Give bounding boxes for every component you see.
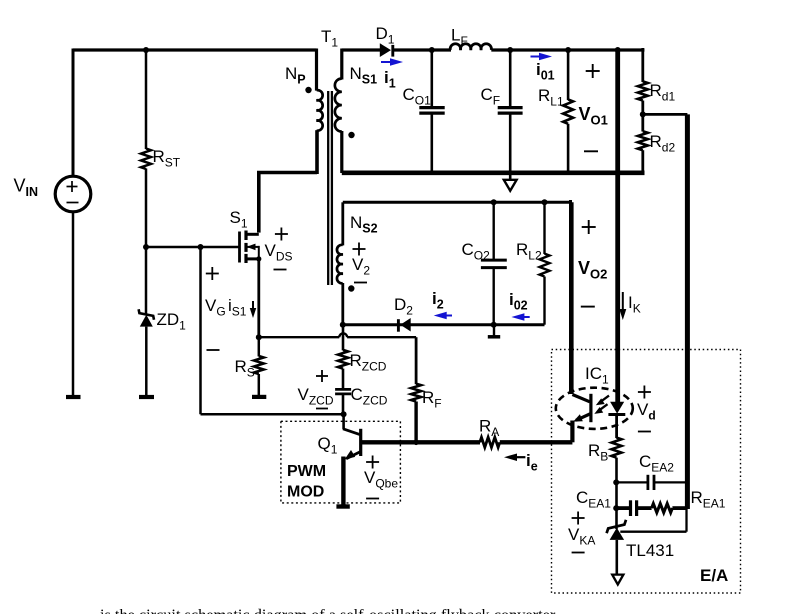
wire Q1 emitter to ground <box>341 457 345 506</box>
arrow i2 current blue <box>445 315 452 317</box>
transistor S1 source lead <box>245 257 259 260</box>
node divider tap <box>640 111 646 117</box>
resistor RL2 <box>543 202 545 254</box>
node RF collector junction <box>413 440 419 446</box>
wire zener branch <box>145 247 148 314</box>
node gate drive junction <box>143 244 149 250</box>
ground bar ZD1 <box>139 395 154 399</box>
wire S1 source vertical <box>257 259 260 337</box>
node S1 source junction <box>256 334 262 340</box>
capacitor CO2 <box>493 202 495 260</box>
inductor LF <box>450 44 491 50</box>
wire drain vertical <box>257 173 261 233</box>
arrow i01 current blue <box>531 56 542 58</box>
wire RZCD to CZCD <box>342 369 345 390</box>
wire RZCD branch upper <box>342 325 345 351</box>
arrow ie current <box>515 456 525 458</box>
transistor Q1 base wire <box>342 414 345 429</box>
ground stub below CO2 <box>493 325 495 337</box>
label plus VDS <box>275 233 288 235</box>
wire NS2 upper lead <box>341 202 344 245</box>
wire NS2 top <box>343 201 572 204</box>
resistor RA <box>480 437 500 447</box>
wire NS1 to output bottom rail <box>340 131 343 173</box>
label minus V2 <box>354 282 367 284</box>
wire secondary2 bottom <box>343 323 545 326</box>
wire divider tap to right rail <box>643 113 688 116</box>
wire NP top lead <box>315 49 318 91</box>
svg-text:E/A: E/A <box>700 566 728 585</box>
label plus VO1 <box>586 70 600 72</box>
wire NS1 top lead <box>340 49 343 80</box>
wire RB to node <box>615 458 618 529</box>
wire opto emitter to RA wire <box>570 421 574 443</box>
label minus VG <box>207 349 220 351</box>
wire VG sense vertical <box>199 247 202 414</box>
wire LF to corner <box>491 48 644 51</box>
wire Q1 collector <box>361 440 480 444</box>
core line left <box>327 91 329 285</box>
shunt regulator TL431 <box>607 520 626 533</box>
label minus Vd <box>638 431 651 433</box>
ground bar VIN return <box>66 395 81 399</box>
wire D1 to LF <box>393 48 451 51</box>
wire CZCD bottom <box>342 394 345 414</box>
zener diode ZD1 <box>139 309 154 320</box>
node CO2 top <box>491 199 497 205</box>
winding NS1 <box>335 79 342 132</box>
diode D1 <box>380 43 391 57</box>
resistor RL1 <box>567 50 570 100</box>
wire LED to RB <box>615 415 618 439</box>
wire Rd1 to tap <box>641 101 644 116</box>
label plus VKA <box>572 517 585 519</box>
resistor RS <box>258 337 261 356</box>
node VG sense junction <box>198 244 204 250</box>
wire hop to RF <box>347 336 416 338</box>
ground bar RS <box>252 395 266 399</box>
diode D2 <box>400 318 410 332</box>
wire top rail primary side <box>73 48 317 51</box>
node D2 wire left junction <box>340 322 346 328</box>
resistor RZCD <box>338 350 348 369</box>
label minus VZCD <box>316 408 328 410</box>
ellipse IC1 outline <box>556 388 633 429</box>
wire VIN bottom lead <box>72 212 75 395</box>
wire NS1 top rail to D1 <box>342 48 381 51</box>
wire gate <box>146 246 240 249</box>
wire ref horizontal <box>620 531 686 533</box>
wire REA1 to rail <box>672 506 687 510</box>
wire Rd branch top <box>641 48 644 82</box>
wire output1 bottom rail <box>342 171 645 176</box>
arrow i02 current blue <box>522 316 529 318</box>
winding NS2 <box>337 245 343 283</box>
wire primary bottom horizontal <box>257 171 317 175</box>
wire Rd2 bottom <box>641 150 644 173</box>
wire Rst branch upper <box>145 50 148 149</box>
transistor S1 body arrow <box>247 246 260 248</box>
node RL1 top <box>565 47 571 53</box>
transistor S1 drain lead <box>245 233 259 236</box>
node junction Rst top <box>143 47 149 53</box>
wire IK rail <box>615 50 620 402</box>
wire opto collector lead <box>572 395 589 402</box>
ground bar Q1 <box>336 504 349 508</box>
label plus VO2 <box>582 226 596 228</box>
LED IC1 <box>610 402 624 414</box>
core line right <box>331 91 333 285</box>
resistor Rd1 <box>638 81 648 100</box>
capacitor CEA2 <box>616 481 648 483</box>
label minus VDS <box>274 269 287 271</box>
wire primary coil lower lead <box>315 130 319 174</box>
wire RA to opto emitter <box>500 440 573 444</box>
voltage source VIN <box>55 176 91 212</box>
arrow iS1 current <box>252 301 254 310</box>
label plus VQbe <box>366 461 379 463</box>
arrow IK current <box>622 292 624 311</box>
phototransistor emitter <box>576 414 591 421</box>
node CEA1 <box>613 505 619 511</box>
node RL2 top <box>542 199 548 205</box>
transistor Q1 base bar <box>359 429 362 456</box>
arrow i1 current blue <box>381 61 392 63</box>
polarity dot NS1 <box>348 132 354 138</box>
wire VIN top lead <box>72 49 75 177</box>
transistor S1 gate bar <box>238 232 241 263</box>
node CO2 bottom <box>491 322 497 328</box>
wire Rst to gate node <box>145 169 148 249</box>
resistor RB <box>612 438 622 458</box>
wire hop over RZCD <box>339 333 347 337</box>
wire source to hop <box>259 336 340 338</box>
svg-text:MOD: MOD <box>287 484 324 501</box>
label minus VKA <box>572 552 585 554</box>
resistor RST <box>141 149 151 170</box>
light arrow lower <box>598 404 608 411</box>
wire NS2 lower lead <box>341 283 344 326</box>
svg-text:TL431: TL431 <box>626 541 674 560</box>
transistor S1 channel segments <box>244 231 247 241</box>
label plus Vd <box>638 391 651 393</box>
box PWM MOD <box>281 421 401 503</box>
ground symbol CF <box>509 173 512 180</box>
node CEA2 <box>613 479 619 485</box>
svg-text:PWM: PWM <box>287 463 326 480</box>
ground symbol TL431 <box>612 575 623 585</box>
node Q1 base junction <box>341 411 347 417</box>
capacitor CF <box>509 50 512 108</box>
wire ref down <box>685 508 687 532</box>
label plus VG <box>206 273 219 275</box>
polarity dot NS2 <box>348 285 354 291</box>
label minus VQbe <box>366 498 379 500</box>
label minus VO1 <box>584 150 598 152</box>
capacitor CZCD <box>335 388 351 391</box>
node IK rail top <box>615 47 621 53</box>
node CO1 top <box>429 47 435 53</box>
polarity dot NP <box>305 87 311 93</box>
resistor Rd2 <box>641 114 644 131</box>
svg-text:is the circuit schematic diagr: is the circuit schematic diagram of a se… <box>100 605 556 614</box>
node CF top <box>507 47 513 53</box>
wire VG sense horizontal <box>201 413 344 416</box>
transistor Q1 emitter <box>346 452 361 459</box>
wire right feedback rail <box>685 114 690 509</box>
label minus VO2 <box>581 306 595 308</box>
resistor RF <box>415 337 418 384</box>
wire VO2 rail <box>569 202 574 394</box>
resistor REA1 <box>652 504 673 513</box>
capacitor CEA1 <box>616 506 630 510</box>
label plus V2 <box>353 248 366 250</box>
phototransistor base bar <box>589 394 592 422</box>
label plus VZCD <box>316 375 328 377</box>
capacitor CO1 <box>430 50 433 108</box>
winding NP <box>317 90 323 131</box>
node S1 source-body <box>256 256 261 261</box>
light arrow upper <box>600 396 610 403</box>
box E/A <box>552 350 741 594</box>
